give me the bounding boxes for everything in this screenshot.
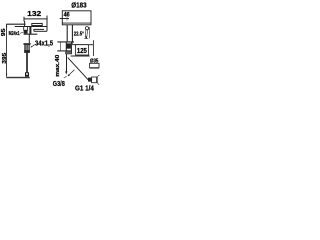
- dimension line 125: [71, 42, 73, 45]
- supply pipe vertical with arrow: [66, 54, 68, 73]
- side shaft: [66, 25, 68, 42]
- washer line / deck bottom left: [57, 50, 72, 52]
- svg-text:G1 1/4: G1 1/4: [75, 84, 95, 93]
- supply stem front view: [26, 53, 28, 74]
- svg-text:max.40: max.40: [55, 55, 61, 77]
- svg-text:34x1,5: 34x1,5: [35, 40, 53, 47]
- aerator outline box: [24, 27, 28, 31]
- hose leader diagonal: [69, 70, 75, 75]
- wire extension line top (395 reference): [6, 23, 25, 25]
- threaded shank hatched: [24, 45, 29, 53]
- rod vertical reference: [89, 27, 91, 38]
- deck line front view: [6, 77, 29, 78]
- mounting nut dark: [66, 43, 71, 48]
- head bottom line: [24, 33, 38, 35]
- rod line right: [87, 30, 88, 38]
- svg-text:M24x1: M24x1: [9, 31, 20, 37]
- top rectangle (plan of spout): [62, 11, 91, 25]
- svg-text:22.5°: 22.5°: [74, 32, 84, 38]
- dimension line 46: [60, 18, 69, 20]
- leader 34x1,5 arrow: [31, 45, 35, 47]
- deck line side view: [57, 41, 74, 43]
- spout top line: [15, 26, 47, 28]
- body stem: [28, 34, 30, 43]
- aerator dark block: [24, 30, 28, 33]
- foot: [25, 72, 29, 76]
- knob circle: [85, 27, 88, 30]
- extension line right of 125: [92, 40, 94, 56]
- svg-text:G3/8: G3/8: [53, 79, 65, 88]
- svg-text:132: 132: [27, 9, 41, 18]
- lower nut block: [66, 51, 72, 54]
- svg-text:125: 125: [77, 46, 87, 55]
- rod bottom tick: [84, 38, 88, 40]
- dimension line 395 vertical: [6, 24, 8, 76]
- spout lower bar outline: [34, 28, 44, 30]
- lever bar outline: [32, 23, 42, 25]
- deck line right: [71, 55, 90, 57]
- waste rod diagonal: [68, 58, 89, 80]
- svg-text:395: 395: [2, 52, 8, 64]
- dimension max.40 line: [59, 42, 61, 51]
- leader M24x1: [20, 32, 24, 33]
- inner bottom line of rectangle: [62, 22, 91, 24]
- dimension line 132: [24, 16, 48, 32]
- label 125 box: [76, 45, 89, 55]
- lever tip dark bar: [29, 26, 31, 34]
- waste valve body: [92, 77, 98, 83]
- below-deck shank walls: [65, 42, 67, 54]
- svg-text:Ø183: Ø183: [71, 1, 86, 10]
- svg-text:95: 95: [1, 29, 7, 37]
- basin rim rectangle: [90, 63, 99, 67]
- waste coupling dark: [88, 78, 92, 82]
- nut bottom line: [66, 47, 71, 49]
- rod line left: [84, 30, 87, 38]
- flange: [23, 43, 30, 45]
